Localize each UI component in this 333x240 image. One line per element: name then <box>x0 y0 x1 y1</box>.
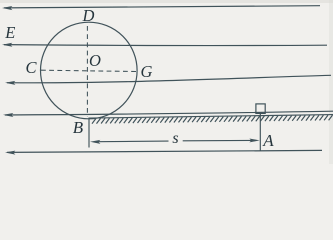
field line 2 <box>2 43 327 47</box>
extension tick below A <box>259 114 261 151</box>
circle (ball) <box>41 22 138 119</box>
svg-text:s: s <box>172 130 178 147</box>
ground line with hatching <box>89 115 333 124</box>
dashed vertical diameter D-B <box>86 26 88 117</box>
svg-text:O: O <box>89 51 101 70</box>
svg-text:G: G <box>141 62 153 81</box>
field line 5 (bottom) <box>5 150 322 154</box>
svg-text:E: E <box>4 23 15 42</box>
dimension line s with arrows <box>90 139 260 144</box>
svg-text:B: B <box>73 118 84 137</box>
field line 3 <box>5 75 331 85</box>
field line 1 (top) <box>2 6 320 10</box>
dashed horizontal diameter C-G <box>41 70 137 71</box>
field line 4 <box>3 111 333 117</box>
extension tick below B <box>88 118 90 148</box>
svg-text:D: D <box>82 6 95 25</box>
svg-text:C: C <box>25 58 37 77</box>
svg-text:A: A <box>262 131 274 150</box>
block (small square) at A <box>256 104 265 114</box>
